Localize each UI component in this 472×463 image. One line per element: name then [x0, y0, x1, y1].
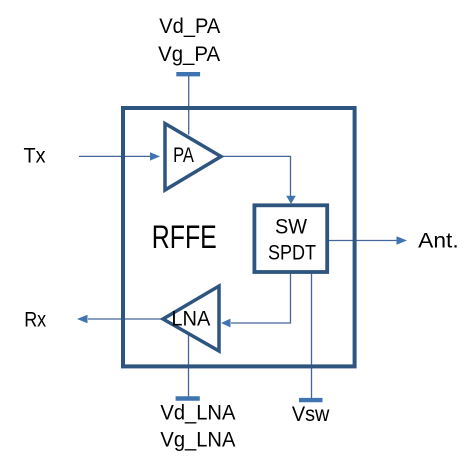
- supply rail bar Vd_PA/Vg_PA: [176, 72, 200, 76]
- svg-text:Vd_PA: Vd_PA: [159, 13, 220, 38]
- wire LNA to Vd_LNA/Vg_LNA supply: [188, 335, 190, 399]
- op-amp LNA (triangle): [163, 286, 219, 351]
- svg-text:LNA: LNA: [171, 306, 210, 331]
- svg-text:SW: SW: [275, 214, 307, 239]
- svg-text:Vg_PA: Vg_PA: [158, 41, 220, 66]
- supply rail bar Vsw: [299, 398, 323, 402]
- supply rail bar Vd_LNA/Vg_LNA: [176, 396, 200, 400]
- svg-text:SPDT: SPDT: [268, 240, 316, 265]
- arrowhead PA wire into SW: [286, 196, 296, 204]
- wire Tx input: [79, 155, 152, 157]
- svg-text:Ant.: Ant.: [418, 228, 459, 253]
- op-amp PA (triangle): [165, 124, 221, 191]
- svg-text:Vd_LNA: Vd_LNA: [160, 400, 235, 425]
- RFFE block outer box: [123, 108, 355, 366]
- svg-text:PA: PA: [173, 142, 194, 167]
- wire Vd_PA/Vg_PA supply to PA: [188, 75, 190, 135]
- switch SW SPDT box: [254, 205, 327, 272]
- wire SW to Vsw supply: [311, 273, 313, 399]
- arrowhead antenna output: [397, 236, 408, 244]
- wire PA output to SW: [222, 156, 291, 197]
- svg-text:Rx: Rx: [24, 307, 46, 332]
- svg-text:Vsw: Vsw: [292, 401, 330, 426]
- wire LNA output to Rx: [88, 318, 163, 320]
- svg-text:RFFE: RFFE: [152, 219, 217, 255]
- wire SW to LNA input: [231, 273, 291, 323]
- svg-text:Vg_LNA: Vg_LNA: [160, 427, 235, 452]
- arrowhead SW wire into LNA: [221, 319, 231, 328]
- arrowhead Tx into PA: [150, 152, 160, 160]
- wire SW to antenna: [329, 240, 398, 242]
- arrowhead Rx output: [77, 315, 88, 323]
- svg-text:Tx: Tx: [24, 143, 46, 168]
